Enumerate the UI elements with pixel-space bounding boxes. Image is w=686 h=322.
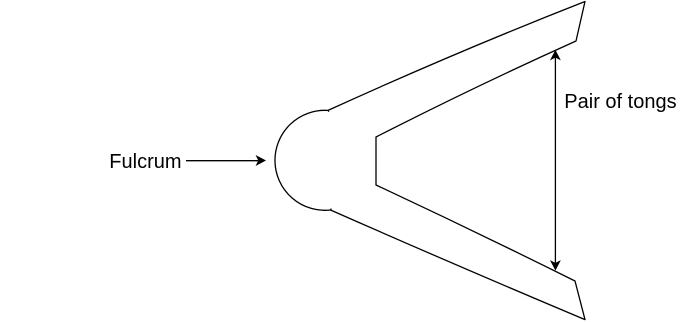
bottom junction hook tick	[330, 209, 331, 211]
double arrow bottom arrowhead	[551, 261, 560, 269]
wire: fulcrum pointer arrow shaft	[186, 160, 258, 162]
wire: pair-of-tongs double arrow shaft	[554, 58, 556, 264]
svg-text:Fulcrum: Fulcrum	[109, 151, 181, 173]
pair of tongs outline (two arms joined by fulcrum arc)	[275, 2, 585, 320]
fulcrum pointer arrowhead	[257, 156, 265, 165]
double arrow top arrowhead	[551, 51, 560, 59]
top junction hook tick	[328, 110, 329, 112]
svg-text:Pair of tongs: Pair of tongs	[564, 91, 676, 113]
